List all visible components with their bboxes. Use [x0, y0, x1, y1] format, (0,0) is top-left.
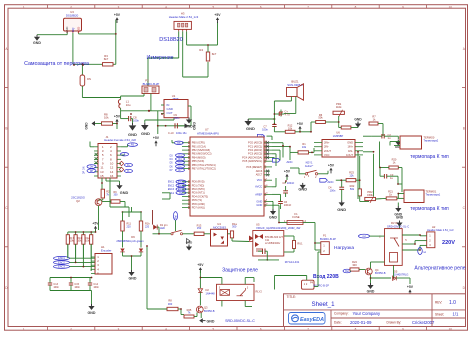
svg-text:D6: D6 — [131, 235, 135, 239]
svg-text:ADC: ADC — [327, 180, 334, 184]
svg-text:EasyEDA: EasyEDA — [300, 317, 324, 323]
svg-text:термопара К тип: термопара К тип — [410, 206, 449, 212]
svg-text:2OUT: 2OUT — [324, 149, 331, 153]
svg-text:BC550-B: BC550-B — [375, 271, 386, 275]
svg-text:rel: rel — [363, 235, 366, 238]
svg-text:ATMEGA8A-8PU: ATMEGA8A-8PU — [197, 131, 219, 135]
svg-text:GND: GND — [85, 122, 89, 130]
svg-text:D-: D- — [127, 170, 130, 173]
svg-text:100n: 100n — [53, 286, 59, 289]
svg-text:KEY1: KEY1 — [306, 161, 313, 165]
svg-text:Header-Female 2.54_2x8: Header-Female 2.54_2x8 — [104, 138, 136, 142]
svg-text:GND: GND — [396, 216, 404, 220]
svg-text:GND: GND — [141, 131, 150, 136]
svg-text:BC550-B: BC550-B — [204, 309, 215, 313]
svg-text:Измерение: Измерение — [147, 55, 174, 61]
svg-text:GND: GND — [33, 41, 41, 45]
svg-text:PC3 (ADC3): PC3 (ADC3) — [248, 152, 262, 156]
svg-text:GND: GND — [347, 141, 353, 145]
svg-text:100n: 100n — [262, 128, 268, 132]
svg-text:100n: 100n — [74, 286, 80, 289]
svg-text:1/1: 1/1 — [453, 312, 459, 317]
svg-text:button*: button* — [305, 164, 314, 168]
svg-text:PB6 (XTAL1/TOSC1): PB6 (XTAL1/TOSC1) — [192, 163, 216, 167]
svg-text:PD7 (AIN1): PD7 (AIN1) — [192, 206, 205, 210]
svg-text:GND: GND — [129, 277, 137, 281]
svg-text:RS: RS — [131, 144, 135, 147]
svg-text:ADC7: ADC7 — [256, 174, 263, 177]
svg-text:P1: P1 — [323, 233, 327, 237]
svg-text:DN: DN — [83, 166, 86, 170]
svg-text:PC4 (ADC4/SDA): PC4 (ADC4/SDA) — [242, 155, 262, 159]
svg-text:PB7 (XTAL2/TOSC2): PB7 (XTAL2/TOSC2) — [192, 167, 216, 171]
svg-text:ADC6: ADC6 — [256, 170, 263, 173]
svg-text:GND: GND — [256, 199, 262, 203]
svg-text:+5V: +5V — [214, 13, 221, 17]
svg-text:ENC1: ENC1 — [58, 257, 65, 260]
svg-text:150: 150 — [197, 226, 202, 230]
svg-text:Header-Male 2.54_1x3: Header-Male 2.54_1x3 — [427, 228, 454, 232]
svg-text:PD0 (RXD): PD0 (RXD) — [192, 180, 205, 184]
svg-text:GND: GND — [246, 126, 255, 131]
svg-text:Header-Male 2.54_1x3: Header-Male 2.54_1x3 — [169, 15, 199, 19]
svg-text:MYG14-431: MYG14-431 — [285, 260, 300, 264]
svg-text:PB0 (ICP5): PB0 (ICP5) — [192, 141, 205, 145]
svg-text:50k: 50k — [318, 116, 323, 120]
svg-text:20: 20 — [265, 185, 267, 187]
svg-text:300: 300 — [232, 225, 237, 229]
svg-text:+5V: +5V — [407, 285, 414, 289]
svg-text:Company:: Company: — [334, 312, 349, 316]
svg-text:PB4 (MISO): PB4 (MISO) — [192, 155, 206, 159]
svg-text:DN: DN — [87, 77, 91, 81]
svg-text:6k7: 6k7 — [104, 57, 109, 61]
svg-text:Термопара1: Термопара1 — [426, 193, 441, 197]
svg-text:10u: 10u — [126, 103, 131, 107]
svg-text:GND: GND — [120, 191, 129, 195]
svg-text:22: 22 — [265, 203, 267, 205]
svg-text:AREF: AREF — [255, 192, 262, 196]
svg-text:300: 300 — [168, 302, 173, 306]
svg-text:RU1: RU1 — [297, 242, 303, 246]
svg-text:PD2 (INT0): PD2 (INT0) — [192, 187, 205, 191]
svg-text:REV:: REV: — [435, 300, 442, 304]
svg-text:7: 7 — [266, 178, 267, 180]
svg-text:ENC2: ENC2 — [58, 261, 65, 264]
svg-text:GND: GND — [65, 27, 69, 33]
svg-text:150k: 150k — [367, 193, 373, 197]
svg-text:GND: GND — [298, 187, 307, 192]
svg-text:PB3 (MOSI/OC2): PB3 (MOSI/OC2) — [192, 152, 212, 156]
svg-text:ENC1: ENC1 — [168, 182, 175, 184]
svg-text:C-n0: C-n0 — [168, 131, 174, 135]
svg-text:Sheet_1: Sheet_1 — [312, 301, 336, 308]
svg-text:1.0: 1.0 — [449, 300, 456, 306]
svg-text:LM358P: LM358P — [333, 134, 344, 138]
svg-text:12k: 12k — [349, 173, 354, 177]
svg-text:1N4448: 1N4448 — [206, 291, 216, 295]
svg-text:100n: 100n — [330, 188, 336, 192]
svg-text:FUSE: FUSE — [292, 215, 299, 219]
svg-text:DS18B20: DS18B20 — [66, 13, 79, 17]
svg-text:Rul: Rul — [179, 193, 183, 195]
svg-text:PD4 (XCK/T0): PD4 (XCK/T0) — [192, 194, 208, 198]
svg-text:PC1 (ADC1): PC1 (ADC1) — [248, 144, 262, 148]
svg-text:LED: LED — [160, 227, 165, 230]
svg-text:4.7u: 4.7u — [285, 113, 291, 117]
svg-text:+5V: +5V — [197, 263, 204, 267]
svg-text:GND: GND — [185, 125, 193, 129]
svg-text:PD1 (TXD): PD1 (TXD) — [192, 183, 205, 187]
svg-text:DN: DN — [90, 166, 94, 169]
svg-text:300: 300 — [114, 194, 119, 197]
svg-text:GND: GND — [207, 319, 215, 323]
svg-text:10k: 10k — [104, 116, 109, 120]
svg-text:2020-01-09: 2020-01-09 — [350, 320, 372, 325]
svg-text:Date:: Date: — [334, 320, 342, 324]
svg-text:TITLE:: TITLE: — [287, 295, 297, 299]
svg-text:GND: GND — [354, 117, 362, 121]
svg-text:10: 10 — [449, 5, 453, 9]
svg-text:100nF: 100nF — [284, 203, 292, 207]
svg-text:+5V: +5V — [153, 136, 160, 140]
svg-text:10k: 10k — [288, 126, 293, 130]
svg-text:Your Company: Your Company — [353, 311, 381, 316]
svg-text:6k7: 6k7 — [212, 52, 217, 56]
svg-text:+5V: +5V — [92, 222, 99, 226]
svg-text:21: 21 — [265, 193, 267, 195]
svg-text:ADC: ADC — [286, 160, 293, 164]
svg-text:220V: 220V — [442, 240, 455, 246]
svg-text:ENC3: ENC3 — [168, 189, 175, 191]
svg-text:GND: GND — [88, 311, 96, 315]
svg-text:10: 10 — [449, 327, 453, 331]
svg-text:2IN+: 2IN+ — [324, 141, 330, 145]
svg-text:VDD: VDD — [77, 27, 81, 33]
svg-text:BU2RC-B-2P: BU2RC-B-2P — [143, 82, 160, 86]
svg-text:GND: GND — [256, 203, 262, 207]
svg-text:Самозащита от перегрева: Самозащита от перегрева — [24, 61, 89, 67]
svg-text:ENC3: ENC3 — [58, 266, 65, 269]
svg-text:100n: 100n — [174, 116, 180, 120]
svg-text:Cricket2007: Cricket2007 — [412, 320, 435, 325]
svg-text:Q2: Q2 — [76, 199, 80, 203]
svg-text:GND: GND — [269, 215, 277, 219]
svg-text:+5V: +5V — [284, 170, 291, 174]
svg-text:RLY1: RLY1 — [391, 221, 398, 225]
svg-text:BU2RC-B-2P: BU2RC-B-2P — [320, 237, 336, 241]
svg-text:PD5 (T1): PD5 (T1) — [192, 198, 202, 202]
svg-text:+5V: +5V — [114, 115, 121, 119]
svg-text:SUN-9905.5: SUN-9905.5 — [287, 83, 303, 87]
svg-text:100n: 100n — [133, 118, 139, 122]
svg-text:Sheet:: Sheet: — [435, 312, 444, 316]
svg-text:2IN-: 2IN- — [324, 145, 329, 149]
svg-text:+5V: +5V — [297, 122, 304, 126]
svg-text:RS: RS — [177, 143, 181, 145]
svg-text:8: 8 — [266, 200, 267, 202]
svg-text:16: 16 — [110, 174, 114, 178]
svg-text:x2 2054F400v: x2 2054F400v — [265, 242, 281, 245]
svg-text:Альтернативное реле: Альтернативное реле — [414, 266, 465, 272]
svg-text:Rul: Rul — [345, 270, 349, 273]
svg-text:1 2: 1 2 — [304, 283, 308, 286]
svg-text:110k: 110k — [336, 105, 342, 109]
svg-text:220: 220 — [145, 225, 150, 228]
svg-text:100n: 100n — [93, 286, 99, 289]
svg-text:Rul: Rul — [171, 193, 175, 195]
svg-text:GND: GND — [367, 289, 375, 293]
svg-text:PC6 (RESET): PC6 (RESET) — [246, 165, 262, 169]
svg-text:SRD-05VDC-SL-C: SRD-05VDC-SL-C — [387, 224, 409, 228]
svg-text:VCC: VCC — [324, 153, 330, 157]
svg-text:OUT: OUT — [167, 111, 173, 115]
svg-text:Термопара2: Термопара2 — [424, 139, 439, 143]
svg-text:26RGB6WA pcb-green: 26RGB6WA pcb-green — [116, 239, 144, 243]
svg-text:15: 15 — [100, 174, 104, 178]
svg-text:Вход 220В: Вход 220В — [313, 274, 339, 280]
svg-text:Rul: Rul — [175, 215, 177, 219]
svg-text:DQ: DQ — [71, 27, 75, 32]
svg-text:PB5 (SCK): PB5 (SCK) — [192, 159, 205, 163]
svg-text:GND: GND — [128, 132, 137, 137]
svg-text:DS18B20: DS18B20 — [159, 37, 183, 43]
svg-text:10k: 10k — [302, 145, 307, 149]
svg-text:B: B — [463, 127, 465, 131]
svg-text:Защитное реле: Защитное реле — [222, 267, 258, 273]
svg-text:PC0 (ADC0): PC0 (ADC0) — [248, 141, 262, 145]
svg-text:Нагрузка: Нагрузка — [334, 245, 354, 251]
svg-text:R4: R4 — [199, 48, 203, 52]
svg-text:GND: GND — [337, 207, 346, 212]
svg-text:AVCC: AVCC — [255, 185, 262, 189]
svg-text:rel: rel — [423, 251, 426, 254]
svg-text:100u 16v: 100u 16v — [176, 131, 187, 135]
svg-text:B: B — [5, 127, 7, 131]
svg-text:DP: DP — [83, 170, 86, 174]
svg-text:PD6 (AIN0): PD6 (AIN0) — [192, 202, 205, 206]
svg-text:термопара К тип: термопара К тип — [410, 154, 449, 160]
svg-text:+5V: +5V — [114, 13, 121, 17]
svg-text:1OUT: 1OUT — [346, 153, 353, 157]
svg-text:GND: GND — [186, 240, 192, 244]
svg-text:DP: DP — [90, 170, 94, 173]
svg-text:ENC2: ENC2 — [168, 185, 175, 187]
svg-text:RLY2: RLY2 — [256, 290, 263, 294]
svg-text:PC5 (ADC5/SCL): PC5 (ADC5/SCL) — [242, 159, 262, 163]
svg-text:VIPerF_G[2054143/209]_200R_4W: VIPerF_G[2054143/209]_200R_4W — [256, 226, 301, 230]
svg-text:1IN-: 1IN- — [348, 149, 353, 153]
svg-text:300: 300 — [352, 263, 357, 267]
svg-text:Drawn By:: Drawn By: — [387, 320, 402, 324]
svg-text:+5V: +5V — [328, 163, 335, 167]
svg-text:PB2 (SS/OC1B): PB2 (SS/OC1B) — [192, 148, 210, 152]
svg-text:50k: 50k — [350, 187, 355, 191]
svg-text:220: 220 — [127, 225, 132, 228]
svg-text:SRD-05VDC-SL-C: SRD-05VDC-SL-C — [225, 319, 255, 323]
svg-text:1IN+: 1IN+ — [347, 145, 353, 149]
svg-text:VCC: VCC — [257, 178, 263, 182]
svg-text:PD3 (INT1): PD3 (INT1) — [192, 191, 205, 195]
svg-text:PC2 (ADC2): PC2 (ADC2) — [248, 148, 262, 152]
svg-text:28: 28 — [265, 159, 267, 161]
svg-text:MOC3063: MOC3063 — [213, 225, 226, 229]
svg-text:PB1 (OC1A): PB1 (OC1A) — [192, 144, 206, 148]
svg-text:100nF: 100nF — [287, 181, 295, 185]
svg-text:Encoder: Encoder — [101, 248, 111, 252]
